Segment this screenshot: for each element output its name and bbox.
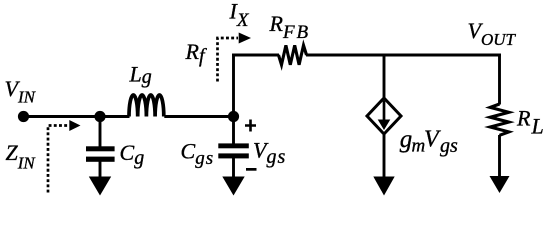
wire VIN to node A xyxy=(23,115,130,118)
dotted arrow IX xyxy=(218,33,252,82)
svg-text:Cgs: Cgs xyxy=(181,138,215,169)
svg-text:ZIN: ZIN xyxy=(6,140,37,172)
ground at current source xyxy=(373,134,394,196)
resistor RFB xyxy=(279,45,307,65)
svg-text:Rf: Rf xyxy=(185,39,207,67)
inductor Lg xyxy=(129,95,164,116)
dependent current source gmVgs xyxy=(367,98,401,134)
label plus polarity Vgs xyxy=(245,120,256,132)
ground at Cg xyxy=(89,161,111,196)
node VIN input terminal xyxy=(18,111,29,122)
svg-text:g: g xyxy=(400,126,413,153)
capacitor Cg xyxy=(86,117,115,162)
resistor RL xyxy=(490,104,509,135)
svg-text:V: V xyxy=(424,127,441,153)
svg-text:gs: gs xyxy=(440,135,458,157)
svg-text:Vgs: Vgs xyxy=(253,137,286,168)
junction node B xyxy=(228,111,239,122)
capacitor Cgs xyxy=(218,117,249,159)
svg-text:Cg: Cg xyxy=(120,140,145,169)
svg-text:VIN: VIN xyxy=(5,76,37,107)
svg-text:IX: IX xyxy=(229,0,250,31)
wire top rail to current source xyxy=(383,55,386,99)
wire top rail left segment xyxy=(232,54,279,57)
junction node A xyxy=(94,111,105,122)
wire riser node B to top rail xyxy=(232,54,235,118)
svg-text:RL: RL xyxy=(516,105,544,138)
label minus polarity Vgs xyxy=(246,168,257,171)
wire inductor to node B xyxy=(164,115,235,118)
dotted arrow ZIN xyxy=(48,120,81,193)
ground at RL xyxy=(490,135,510,193)
wire top rail right segment xyxy=(306,54,501,57)
svg-text:RFB: RFB xyxy=(269,11,311,43)
svg-text:VOUT: VOUT xyxy=(468,18,517,49)
wire VOUT drop to RL xyxy=(498,54,501,105)
svg-text:Lg: Lg xyxy=(129,61,152,88)
ground at Cgs xyxy=(222,158,244,196)
